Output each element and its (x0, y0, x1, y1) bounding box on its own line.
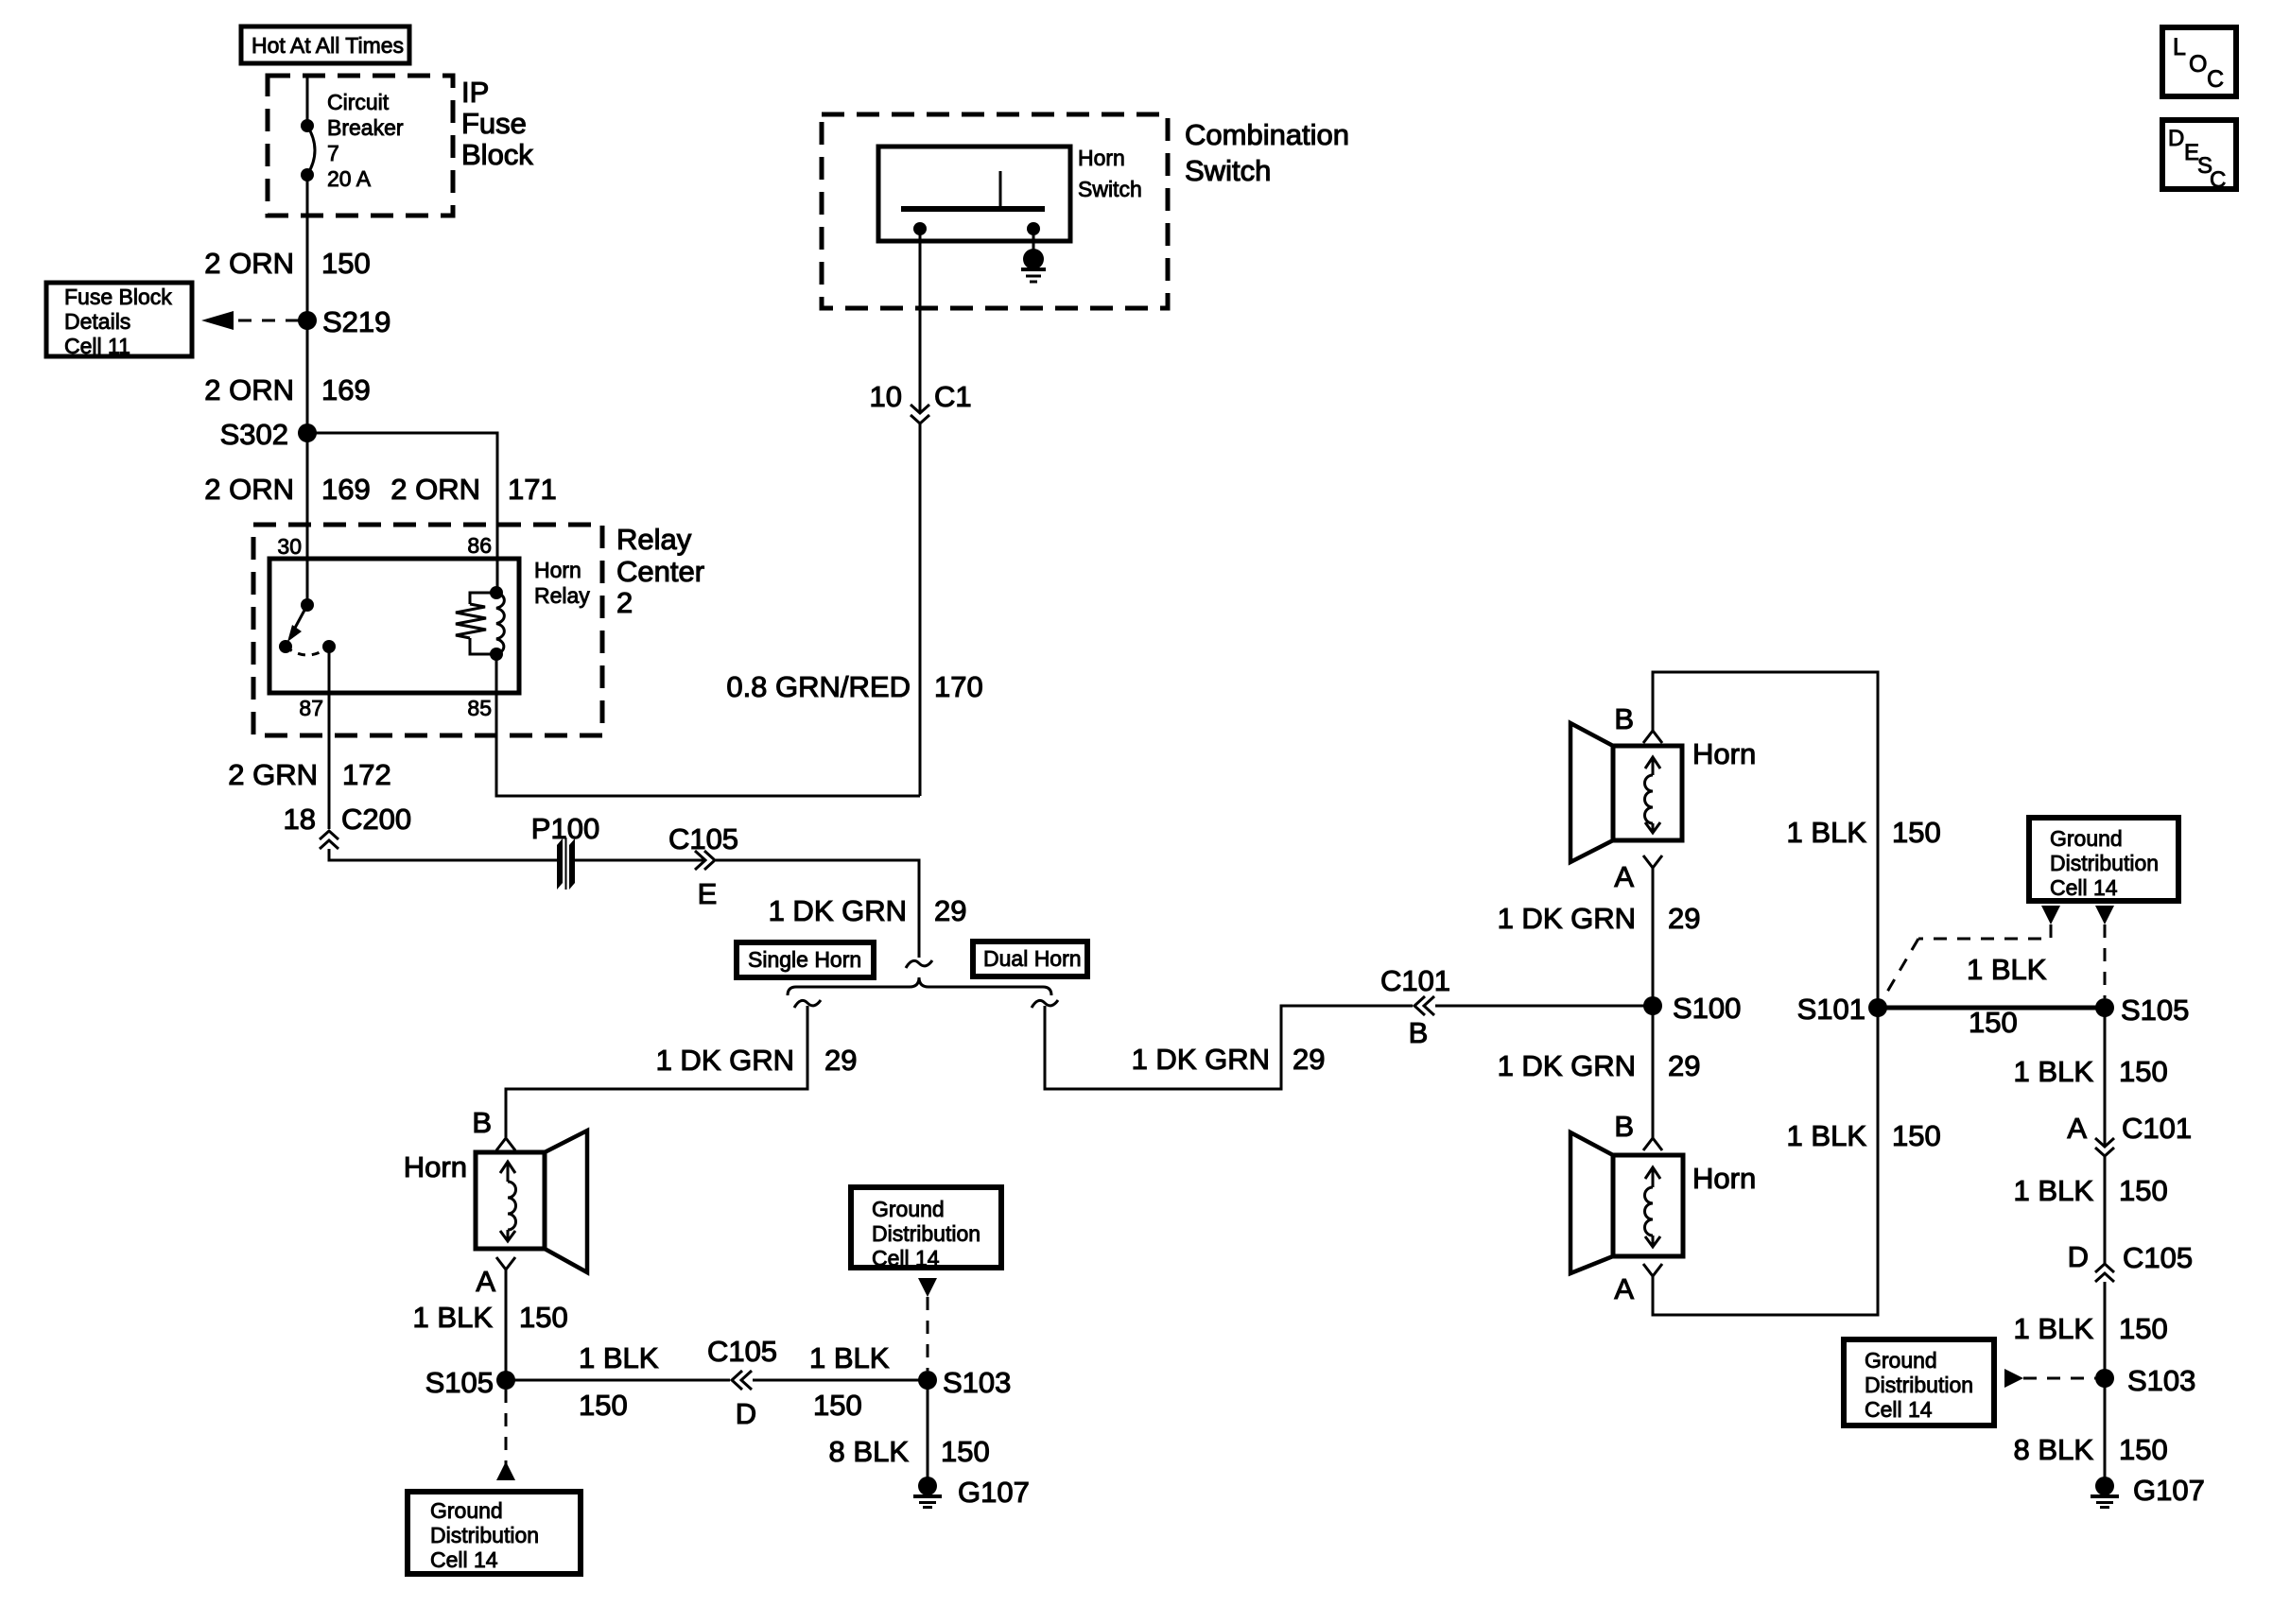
wire pin 87 down to C200 (328, 647, 331, 829)
svg-text:S105: S105 (2121, 993, 2189, 1027)
svg-text:29: 29 (1293, 1043, 1325, 1076)
label Relay Center 2 (616, 523, 704, 619)
terminal B fork bottom right horn (1614, 1110, 1662, 1150)
svg-text:2 GRN: 2 GRN (228, 758, 318, 791)
svg-text:A: A (476, 1265, 495, 1298)
svg-text:87: 87 (299, 696, 323, 720)
dashed ground reference to left S103 (918, 1278, 937, 1371)
node S103 left (918, 1366, 1011, 1399)
wire 1 BLK 150 C101 to C105 (2104, 1156, 2107, 1264)
IP Fuse Block dashed box (268, 76, 453, 216)
svg-text:150: 150 (1892, 1119, 1941, 1152)
Single Horn label box (737, 942, 874, 977)
svg-text:IP: IP (461, 76, 489, 109)
svg-text:Fuse Block: Fuse Block (64, 285, 172, 309)
svg-text:8 BLK: 8 BLK (829, 1435, 910, 1468)
svg-text:150: 150 (579, 1389, 628, 1422)
wire 2 ORN 169 from S219 to S302 (306, 320, 309, 433)
node S219 (298, 305, 390, 338)
svg-text:Details: Details (64, 309, 130, 334)
wire single horn branch 1 DK GRN 29 (506, 1006, 807, 1137)
label 8 BLK 150 (829, 1435, 990, 1468)
svg-text:Ground: Ground (430, 1498, 503, 1523)
svg-text:1 DK GRN: 1 DK GRN (1132, 1043, 1270, 1076)
svg-text:1 DK GRN: 1 DK GRN (769, 894, 907, 927)
label Horn Relay (534, 558, 590, 608)
svg-text:2 ORN: 2 ORN (390, 473, 480, 506)
svg-text:Fuse: Fuse (461, 107, 527, 140)
svg-text:0.8 GRN/RED: 0.8 GRN/RED (726, 670, 911, 703)
svg-text:Center: Center (616, 555, 704, 588)
svg-text:Horn: Horn (1692, 737, 1756, 770)
svg-text:1 BLK: 1 BLK (2014, 1055, 2094, 1088)
svg-text:30: 30 (277, 534, 302, 559)
label 1 DK GRN 29 (769, 894, 967, 927)
wire dual horn branch 1 DK GRN 29 (1045, 1006, 1413, 1089)
label 1 DK GRN 29 (1132, 1043, 1326, 1076)
node S105 right (2095, 993, 2189, 1027)
relay coil and resistor between pins 86 and 85 (456, 586, 504, 661)
pass-through grommet P100 (531, 812, 599, 890)
top right horn (1570, 723, 1682, 862)
wire from S302 right and down to relay pin 86 (307, 433, 497, 559)
svg-text:C: C (2207, 66, 2224, 93)
svg-text:Dual Horn: Dual Horn (983, 946, 1082, 971)
wire horn switch to C1 (919, 423, 922, 796)
label 1 DK GRN 29 above S100 (1498, 902, 1701, 935)
svg-text:S101: S101 (1797, 993, 1865, 1026)
horn relay K1 box (269, 559, 519, 693)
connector C200 cavity 18 chevrons (284, 803, 412, 849)
svg-text:L: L (2173, 34, 2186, 60)
wire 8 BLK 150 S103 to G107 (927, 1380, 929, 1480)
wire 2 ORN 150 from breaker to S219 (306, 175, 309, 320)
wire relay pin 85 internal (495, 654, 498, 693)
dashed ground reference from S105 (496, 1390, 515, 1480)
svg-text:29: 29 (824, 1044, 857, 1077)
svg-text:Horn: Horn (404, 1150, 467, 1183)
Combination Switch dashed box (822, 114, 1168, 308)
svg-text:S302: S302 (220, 418, 288, 451)
svg-text:150: 150 (2119, 1055, 2168, 1088)
label 1 BLK 150 below S101 (1787, 1119, 1941, 1152)
option brace for Single Horn / Dual Horn (788, 977, 1051, 995)
single horn branch squiggle (794, 1000, 821, 1008)
svg-text:170: 170 (934, 670, 983, 703)
wire from C200 to P100 (329, 849, 557, 860)
svg-text:150: 150 (2119, 1312, 2168, 1345)
svg-text:O: O (2189, 51, 2207, 78)
svg-text:150: 150 (2119, 1174, 2168, 1207)
svg-text:C105: C105 (707, 1335, 777, 1368)
dashed reference arrow to Fuse Block Details (201, 311, 299, 330)
svg-text:Switch: Switch (1185, 154, 1271, 187)
svg-text:Distribution: Distribution (872, 1221, 980, 1246)
relay switch arm (279, 598, 336, 655)
svg-text:C101: C101 (2122, 1112, 2192, 1145)
label 2 ORN 169 (204, 473, 370, 506)
svg-text:B: B (472, 1106, 492, 1139)
label 1 BLK 150 (2014, 1312, 2168, 1345)
LOC legend box (2162, 27, 2236, 96)
label Circuit Breaker 7 20 A (327, 90, 404, 191)
horn switch contacts (901, 171, 1045, 235)
svg-text:A: A (1614, 860, 1634, 893)
splice option squiggle at end of wire 29 (906, 960, 932, 968)
svg-text:150: 150 (2119, 1433, 2168, 1466)
svg-text:Breaker: Breaker (327, 115, 404, 140)
terminal A fork top right horn (1614, 855, 1662, 893)
node S302 (220, 418, 317, 451)
svg-text:C105: C105 (668, 822, 738, 855)
svg-text:85: 85 (467, 696, 492, 720)
svg-text:Switch: Switch (1078, 177, 1142, 201)
left horn (476, 1131, 587, 1272)
svg-text:1 DK GRN: 1 DK GRN (1498, 1049, 1636, 1082)
svg-text:Relay: Relay (616, 523, 692, 556)
svg-text:C105: C105 (2123, 1241, 2193, 1274)
svg-text:Hot At All Times: Hot At All Times (252, 33, 404, 58)
Fuse Block Details Cell 11 box (46, 283, 192, 358)
DESC legend box (2162, 120, 2236, 193)
svg-text:S103: S103 (943, 1366, 1011, 1399)
svg-text:S105: S105 (425, 1366, 494, 1399)
Dual Horn label box (973, 942, 1087, 976)
dashed ground reference to right S103 (2004, 1369, 2095, 1388)
wire S101 to right S105 (1878, 1006, 2105, 1011)
wire 8 BLK 150 S103 to G107 (2104, 1378, 2107, 1480)
svg-text:Ground: Ground (1865, 1348, 1937, 1373)
svg-text:G107: G107 (958, 1476, 1030, 1509)
svg-text:Cell 11: Cell 11 (64, 334, 130, 358)
svg-text:B: B (1409, 1016, 1429, 1049)
svg-text:150: 150 (321, 247, 371, 280)
svg-text:150: 150 (1969, 1006, 2018, 1039)
circuit breaker CB7 symbol (301, 119, 315, 181)
label IP Fuse Block (461, 76, 533, 171)
node S101 (1797, 993, 1887, 1026)
svg-text:8 BLK: 8 BLK (2014, 1433, 2094, 1466)
Ground Distribution Cell 14 box bottom right (1844, 1339, 1994, 1425)
wire 1 DK GRN 29 from C105 to splice split (716, 860, 919, 958)
svg-text:10: 10 (870, 380, 902, 413)
svg-text:1 BLK: 1 BLK (413, 1301, 494, 1334)
svg-text:S100: S100 (1673, 992, 1741, 1025)
svg-text:Horn: Horn (1078, 146, 1125, 170)
wire S105 to C105 (506, 1379, 730, 1382)
wire relay pin 86 internal (496, 559, 499, 593)
svg-text:Cell 14: Cell 14 (1865, 1397, 1933, 1422)
wire top right horn B to S101 (1653, 672, 1878, 1008)
svg-text:2 ORN: 2 ORN (204, 473, 294, 506)
svg-text:18: 18 (284, 803, 316, 836)
svg-text:Relay: Relay (534, 583, 590, 608)
svg-text:B: B (1614, 1110, 1634, 1143)
svg-text:C101: C101 (1380, 964, 1450, 997)
svg-text:Ground: Ground (2050, 826, 2123, 851)
svg-text:1 BLK: 1 BLK (2014, 1312, 2094, 1345)
svg-text:Horn: Horn (1692, 1162, 1756, 1195)
svg-text:1 BLK: 1 BLK (2014, 1174, 2094, 1207)
label 2 ORN 169 (204, 373, 370, 406)
wire C1 up to horn switch (919, 229, 922, 413)
svg-text:171: 171 (508, 473, 557, 506)
svg-text:2 ORN: 2 ORN (204, 373, 294, 406)
label 1 BLK 150 above S101 (1787, 816, 1941, 849)
ground inside combination switch (1021, 229, 1046, 282)
svg-text:A: A (2067, 1112, 2087, 1145)
wire P100 to C105 (575, 859, 703, 862)
connector C105 cavity D chevrons (2068, 1240, 2194, 1282)
svg-text:1 BLK: 1 BLK (579, 1341, 659, 1374)
svg-text:B: B (1614, 702, 1634, 735)
svg-text:Horn: Horn (534, 558, 581, 582)
ground G107 right (2091, 1474, 2205, 1508)
svg-text:S219: S219 (322, 305, 390, 338)
svg-text:Cell 14: Cell 14 (430, 1547, 498, 1572)
node S100 (1643, 992, 1741, 1025)
label 1 BLK 150 (2014, 1055, 2168, 1088)
svg-text:20 A: 20 A (327, 166, 372, 191)
wire from Hot At All Times into breaker (306, 76, 309, 126)
bottom right horn (1570, 1132, 1683, 1273)
wire S100 down to bottom right horn B (1652, 1006, 1655, 1138)
svg-text:1 DK GRN: 1 DK GRN (1498, 902, 1636, 935)
svg-text:1 BLK: 1 BLK (1967, 953, 2047, 986)
node S105 left (425, 1366, 515, 1399)
node S103 right (2095, 1364, 2195, 1397)
svg-text:2 ORN: 2 ORN (204, 247, 294, 280)
wire relay pin 85 to horn switch (496, 693, 920, 796)
svg-text:Circuit: Circuit (327, 90, 390, 114)
label 1 BLK 150 on S101-S105 wire (1967, 953, 2047, 1039)
svg-text:C200: C200 (341, 803, 411, 836)
wire bottom right horn A to S101 (1653, 1008, 1878, 1315)
Ground Distribution Cell 14 box top right (2029, 818, 2178, 901)
wire 1 BLK 150 S105 down (2104, 1008, 2107, 1147)
horn switch SW box (878, 147, 1070, 241)
svg-text:Distribution: Distribution (1865, 1373, 1973, 1397)
svg-text:169: 169 (321, 373, 371, 406)
terminal B fork at left horn (472, 1106, 515, 1150)
svg-text:Single Horn: Single Horn (748, 947, 861, 972)
svg-text:D: D (2068, 1240, 2089, 1273)
wire C105 to S103 (753, 1379, 928, 1382)
label 1 DK GRN 29 (656, 1044, 858, 1077)
Ground Distribution Cell 14 box above left S103 (851, 1187, 1001, 1270)
dashed ground reference from S101 (1883, 906, 2060, 998)
ground G107 left (913, 1476, 1030, 1509)
svg-text:Block: Block (461, 138, 533, 171)
svg-text:29: 29 (934, 894, 966, 927)
label 1 BLK 150 left of C105 (579, 1341, 659, 1422)
dashed ground reference from right S105 (2095, 906, 2114, 998)
label 0.8 GRN/RED 170 (726, 670, 982, 703)
terminal A fork bottom right horn (1614, 1264, 1662, 1305)
label 1 BLK 150 (413, 1301, 568, 1334)
label 1 BLK 150 (2014, 1174, 2168, 1207)
terminal B fork top right horn (1614, 702, 1662, 743)
svg-text:C1: C1 (934, 380, 972, 413)
svg-text:169: 169 (321, 473, 371, 506)
Hot At All Times label box (241, 26, 409, 63)
connector C105 cavity D chevrons (707, 1335, 777, 1430)
svg-text:Combination: Combination (1185, 118, 1349, 151)
connector C1 cavity 10 chevrons (870, 380, 972, 423)
svg-text:C: C (2210, 167, 2226, 193)
svg-text:E: E (698, 877, 718, 910)
Ground Distribution Cell 14 box bottom left (408, 1492, 581, 1574)
svg-text:Cell 14: Cell 14 (872, 1246, 940, 1270)
label 2 ORN 171 (390, 473, 556, 506)
svg-text:Cell 14: Cell 14 (2050, 875, 2118, 900)
label 1 DK GRN 29 below S100 (1498, 1049, 1701, 1082)
connector C101 cavity A chevrons (2067, 1112, 2192, 1156)
label Horn Switch (1078, 146, 1142, 201)
svg-text:1 BLK: 1 BLK (1787, 1119, 1867, 1152)
svg-text:Ground: Ground (872, 1197, 945, 1221)
svg-text:S103: S103 (2127, 1364, 2195, 1397)
svg-text:D: D (2168, 126, 2184, 151)
svg-text:G107: G107 (2133, 1474, 2205, 1507)
connector C101 cavity B chevrons (1380, 964, 1450, 1049)
label 2 ORN 150 (204, 247, 370, 280)
label 8 BLK 150 (2014, 1433, 2168, 1466)
svg-text:Distribution: Distribution (2050, 851, 2159, 875)
svg-text:150: 150 (519, 1301, 568, 1334)
wire C101 to S100 (1435, 1005, 1653, 1008)
label Combination Switch (1185, 118, 1349, 187)
svg-text:D: D (736, 1397, 756, 1430)
svg-text:1 BLK: 1 BLK (809, 1341, 890, 1374)
svg-text:150: 150 (813, 1389, 862, 1422)
svg-text:1 DK GRN: 1 DK GRN (656, 1044, 794, 1077)
svg-text:2: 2 (616, 586, 633, 619)
connector C105 cavity E chevrons (668, 822, 738, 910)
svg-text:1 BLK: 1 BLK (1787, 816, 1867, 849)
wire 1 BLK 150 left horn to S105 (505, 1270, 508, 1380)
svg-text:7: 7 (327, 141, 339, 165)
Relay Center dashed box (253, 525, 602, 735)
wire 2 ORN 169 from S302 down to relay pin 30 (306, 433, 309, 605)
svg-text:86: 86 (467, 533, 492, 558)
label 2 GRN 172 (228, 758, 390, 791)
svg-text:29: 29 (1668, 1049, 1700, 1082)
svg-text:150: 150 (1892, 816, 1941, 849)
wire S100 up to top right horn A (1652, 868, 1655, 1006)
wire 1 BLK 150 C105 to S103 (2104, 1282, 2107, 1378)
svg-text:Distribution: Distribution (430, 1523, 539, 1547)
svg-text:29: 29 (1668, 902, 1700, 935)
label 1 BLK 150 right of C105 (809, 1341, 890, 1422)
dual horn branch squiggle (1032, 1000, 1058, 1008)
svg-text:150: 150 (941, 1435, 990, 1468)
svg-text:172: 172 (342, 758, 391, 791)
terminal A fork at left horn (476, 1257, 515, 1298)
svg-text:A: A (1614, 1272, 1634, 1305)
